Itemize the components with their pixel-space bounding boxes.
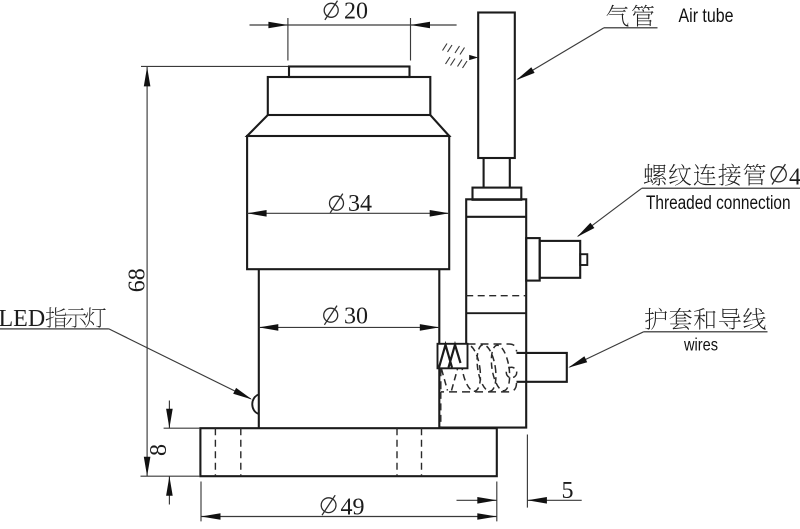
air tube lower stem xyxy=(484,158,510,188)
leader to wires xyxy=(570,332,644,367)
dimension Ø30: line xyxy=(259,326,440,328)
dimension Ø30: arrows xyxy=(259,324,440,331)
svg-text:20: 20 xyxy=(344,0,368,25)
right column (valve body) xyxy=(439,199,526,427)
label 护套和导线 xyxy=(645,308,766,330)
threaded connection neck xyxy=(526,238,540,281)
spring hidden wire path to base xyxy=(440,392,442,428)
spring hidden coil loops xyxy=(459,343,513,392)
leader to threaded connection xyxy=(578,188,642,236)
LED bump on body edge xyxy=(252,394,259,414)
dimension Ø49: text xyxy=(321,498,336,513)
svg-text:49: 49 xyxy=(341,495,365,521)
svg-text:Threaded connection: Threaded connection xyxy=(646,193,791,214)
air tube xyxy=(478,13,515,159)
main body: taper shoulder xyxy=(247,115,449,136)
label 螺纹连接管 underline xyxy=(642,187,800,189)
label 气管 (air tube) xyxy=(607,5,654,27)
label LED underline xyxy=(0,328,109,330)
spring wire end hook xyxy=(506,367,516,377)
svg-text:30: 30 xyxy=(344,304,368,330)
main body: upper tier xyxy=(268,77,431,115)
right column hidden dashed line xyxy=(466,295,526,297)
dimension Ø49: extension lines xyxy=(201,482,497,522)
dimension 5: extension line xyxy=(526,435,528,508)
svg-text:4: 4 xyxy=(789,164,800,190)
dimension 8: lines xyxy=(168,401,170,505)
right column collar line xyxy=(466,216,526,218)
spring hidden dashed housing xyxy=(441,344,517,392)
main body: Ø20 top boss xyxy=(289,67,410,78)
spring visible coil strokes xyxy=(439,345,461,368)
air tube collar xyxy=(473,188,522,200)
svg-text:34: 34 xyxy=(348,191,372,217)
svg-text:wires: wires xyxy=(683,334,718,354)
dimension Ø20: arrows xyxy=(268,22,430,29)
dimension Ø34: text xyxy=(330,196,344,210)
dimension 5: arrows xyxy=(477,497,547,504)
main body: Ø30 cylinder xyxy=(259,269,440,428)
dimension Ø49: line xyxy=(201,516,497,518)
dimension Ø20: text xyxy=(324,3,338,17)
dimension 68: extension lines xyxy=(141,66,289,476)
label 护套和导线 underline xyxy=(644,331,768,333)
spring visible box xyxy=(438,344,468,369)
threaded connection block xyxy=(540,241,581,278)
base flange Ø49 xyxy=(200,428,496,476)
wire outlet stub xyxy=(517,353,567,382)
main body: Ø34 cylinder xyxy=(247,136,449,269)
base flange hidden hole lines xyxy=(215,428,421,476)
right column inner solid line xyxy=(466,312,526,314)
air flow marks xyxy=(443,44,468,69)
spring visible coil lower dashes xyxy=(442,369,458,391)
dimension Ø34: arrows xyxy=(247,210,449,217)
leader to LED xyxy=(109,329,251,399)
svg-text:5: 5 xyxy=(562,478,574,504)
dimension Ø49: arrows xyxy=(201,513,497,520)
svg-text:8: 8 xyxy=(146,444,172,456)
dimension 5: lines xyxy=(457,499,582,501)
svg-text:Air tube: Air tube xyxy=(679,6,734,27)
dimension 68: arrows xyxy=(144,67,151,476)
label 气管 underline xyxy=(604,27,658,29)
threaded connection nub xyxy=(580,254,587,265)
air flow arrow xyxy=(469,55,478,60)
dimension Ø20: line xyxy=(250,24,457,26)
dimension 8: extension line xyxy=(164,427,200,429)
dimension Ø30: text xyxy=(324,308,338,322)
svg-text:LED: LED xyxy=(0,306,45,332)
label 螺纹连接管Ø4 xyxy=(644,164,766,186)
dimension Ø20: extension lines xyxy=(288,18,411,61)
dimension Ø34: line xyxy=(247,212,449,214)
svg-text:68: 68 xyxy=(125,268,151,292)
dimension 8: arrows xyxy=(166,409,173,496)
leader to air tube xyxy=(518,28,605,80)
dimension 68: line xyxy=(146,67,148,476)
